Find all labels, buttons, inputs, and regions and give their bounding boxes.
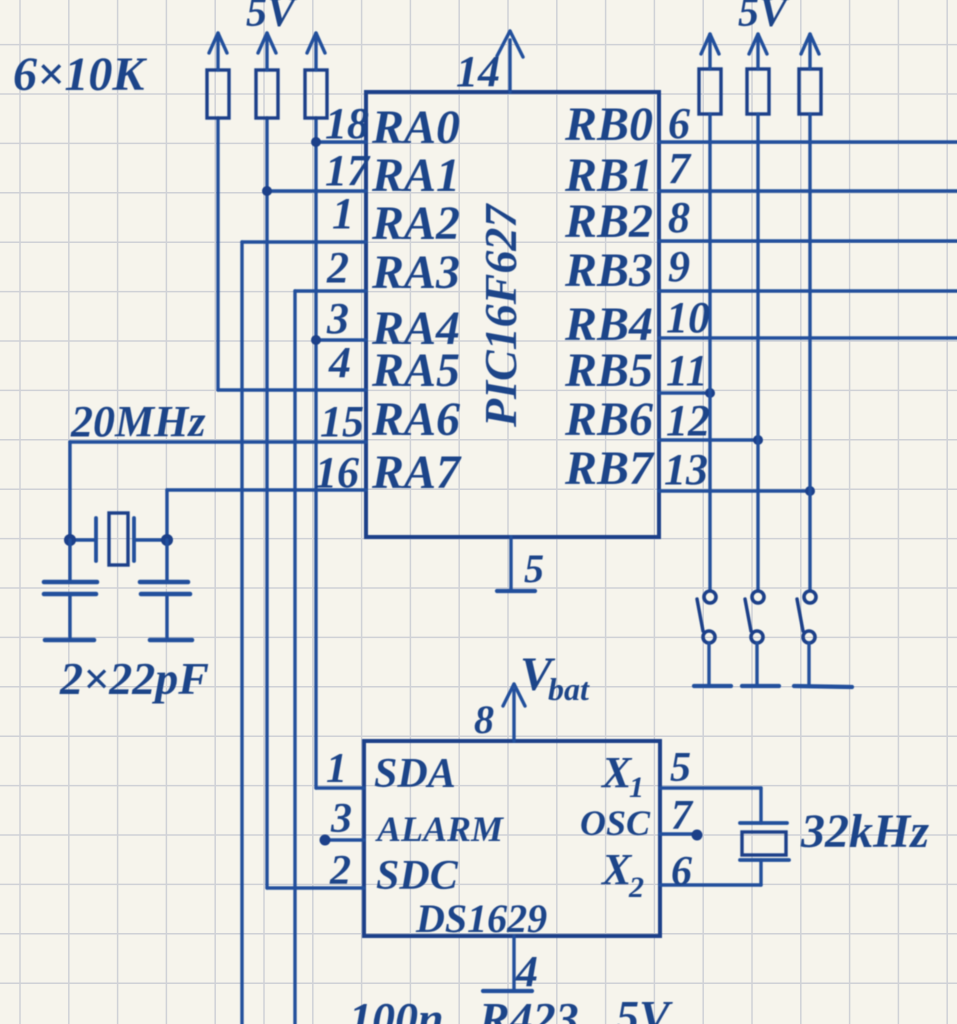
svg-text:RA3: RA3 — [371, 246, 460, 299]
svg-text:3: 3 — [330, 796, 352, 842]
svg-text:7: 7 — [668, 144, 692, 193]
svg-text:ALARM: ALARM — [375, 809, 505, 849]
svg-text:RB7: RB7 — [564, 442, 655, 495]
svg-text:PIC16F627: PIC16F627 — [475, 203, 526, 428]
svg-text:SDA: SDA — [374, 751, 456, 797]
svg-text:2×22pF: 2×22pF — [59, 653, 209, 704]
svg-text:RB0: RB0 — [564, 98, 653, 151]
svg-text:1: 1 — [326, 746, 347, 792]
svg-text:100n: 100n — [349, 993, 444, 1024]
svg-text:8: 8 — [474, 697, 494, 742]
svg-text:1: 1 — [332, 189, 354, 238]
svg-text:RA5: RA5 — [371, 344, 460, 397]
svg-text:RA1: RA1 — [371, 149, 460, 202]
svg-text:20MHz: 20MHz — [70, 397, 205, 446]
svg-text:RB2: RB2 — [564, 195, 653, 248]
svg-text:5: 5 — [524, 546, 544, 591]
svg-text:4: 4 — [328, 338, 351, 387]
svg-text:13: 13 — [664, 445, 708, 494]
svg-text:3: 3 — [326, 294, 349, 343]
svg-text:RA6: RA6 — [371, 393, 460, 446]
svg-text:OSC: OSC — [580, 803, 651, 843]
svg-text:1: 1 — [629, 771, 644, 804]
svg-text:10: 10 — [666, 293, 710, 342]
svg-text:7: 7 — [671, 793, 694, 839]
svg-text:5V: 5V — [616, 991, 673, 1024]
svg-text:18: 18 — [325, 99, 369, 148]
svg-text:4: 4 — [515, 947, 538, 996]
svg-text:RA7: RA7 — [371, 446, 462, 499]
svg-text:6: 6 — [668, 99, 690, 148]
svg-text:RA0: RA0 — [371, 101, 460, 154]
svg-text:R423: R423 — [478, 993, 579, 1024]
svg-text:DS1629: DS1629 — [415, 896, 547, 941]
svg-text:5V: 5V — [246, 0, 298, 36]
svg-text:5V: 5V — [738, 0, 790, 36]
svg-text:RB5: RB5 — [564, 344, 653, 397]
svg-text:2: 2 — [326, 243, 349, 292]
svg-text:8: 8 — [668, 193, 690, 242]
svg-text:6×10K: 6×10K — [13, 48, 147, 101]
svg-text:14: 14 — [456, 47, 500, 96]
svg-text:9: 9 — [668, 242, 690, 291]
svg-text:32kHz: 32kHz — [800, 805, 929, 858]
svg-text:2: 2 — [329, 848, 351, 894]
svg-text:SDC: SDC — [376, 853, 459, 899]
svg-text:15: 15 — [320, 397, 364, 446]
svg-text:RA2: RA2 — [371, 197, 460, 250]
svg-text:RB3: RB3 — [564, 244, 653, 297]
svg-text:16: 16 — [315, 448, 359, 497]
svg-text:6: 6 — [671, 849, 692, 895]
svg-text:11: 11 — [666, 346, 708, 395]
svg-text:RB6: RB6 — [564, 393, 653, 446]
svg-text:12: 12 — [666, 396, 710, 445]
svg-text:2: 2 — [628, 871, 644, 904]
svg-text:17: 17 — [325, 146, 371, 195]
svg-text:bat: bat — [548, 671, 590, 707]
svg-text:5: 5 — [670, 745, 691, 791]
